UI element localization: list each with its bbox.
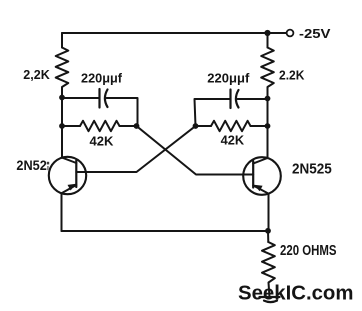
transistor Q1 2N525 left — [49, 157, 86, 194]
node left collector (junction dot) — [59, 95, 65, 101]
svg-text:2N525: 2N525 — [292, 161, 332, 177]
node right 42K left end (junction dot) — [193, 123, 199, 129]
transistor Q2 2N525 right — [243, 157, 281, 195]
wire left collector node down — [61, 98, 63, 127]
capacitor C1 plates — [100, 89, 108, 108]
node emitter junction (dot) — [265, 228, 271, 234]
capacitor C1 220uuf left: wires — [62, 98, 138, 126]
svg-text:42K: 42K — [90, 133, 115, 148]
svg-text:2N52: 2N52 — [16, 158, 46, 173]
resistor R4 42K right — [196, 121, 268, 131]
svg-text:SeekIC.com: SeekIC.com — [238, 281, 354, 304]
capacitor C2 220uuf right: wires — [195, 99, 268, 126]
svg-text:220μμf: 220μμf — [207, 71, 250, 86]
wire left collector down to Q1 — [61, 126, 63, 158]
terminal -25V open circle — [287, 30, 294, 37]
svg-text:2,2K: 2,2K — [23, 67, 50, 82]
node left 42K left end (junction dot) — [59, 123, 65, 129]
wire to -25V terminal — [268, 32, 287, 34]
svg-text:220 OHMS: 220 OHMS — [280, 243, 337, 259]
node right collector cap end (junction dot) — [265, 96, 271, 102]
node left cross-coupling (junction dot) — [134, 123, 140, 129]
resistor R1 2,2K left — [56, 33, 69, 98]
svg-text:2.2K: 2.2K — [279, 68, 305, 83]
svg-text:-25V: -25V — [299, 26, 331, 41]
capacitor C2 plates — [231, 90, 239, 109]
wire top rail — [62, 32, 268, 34]
wire left emitter down — [61, 194, 63, 232]
wire bottom emitter rail — [62, 230, 269, 232]
wire cross-coupling A: left node diagonal down to right base — [137, 126, 254, 175]
resistor R5 220 OHMS — [262, 231, 275, 297]
resistor R3 42K left — [62, 121, 137, 131]
resistor R2 2.2K right — [261, 33, 274, 98]
ground — [260, 297, 280, 302]
node top rail junction (dot) — [264, 30, 270, 36]
wire cross-coupling B: right node diagonal down to left base — [76, 126, 195, 172]
wire right collector down to Q2 — [267, 126, 269, 158]
svg-text:220μμf: 220μμf — [81, 71, 123, 86]
wire right collector node segment — [267, 99, 269, 127]
svg-text:42K: 42K — [221, 133, 245, 147]
node right collector 42K end (junction dot) — [265, 123, 271, 129]
wire right emitter down — [268, 195, 270, 232]
